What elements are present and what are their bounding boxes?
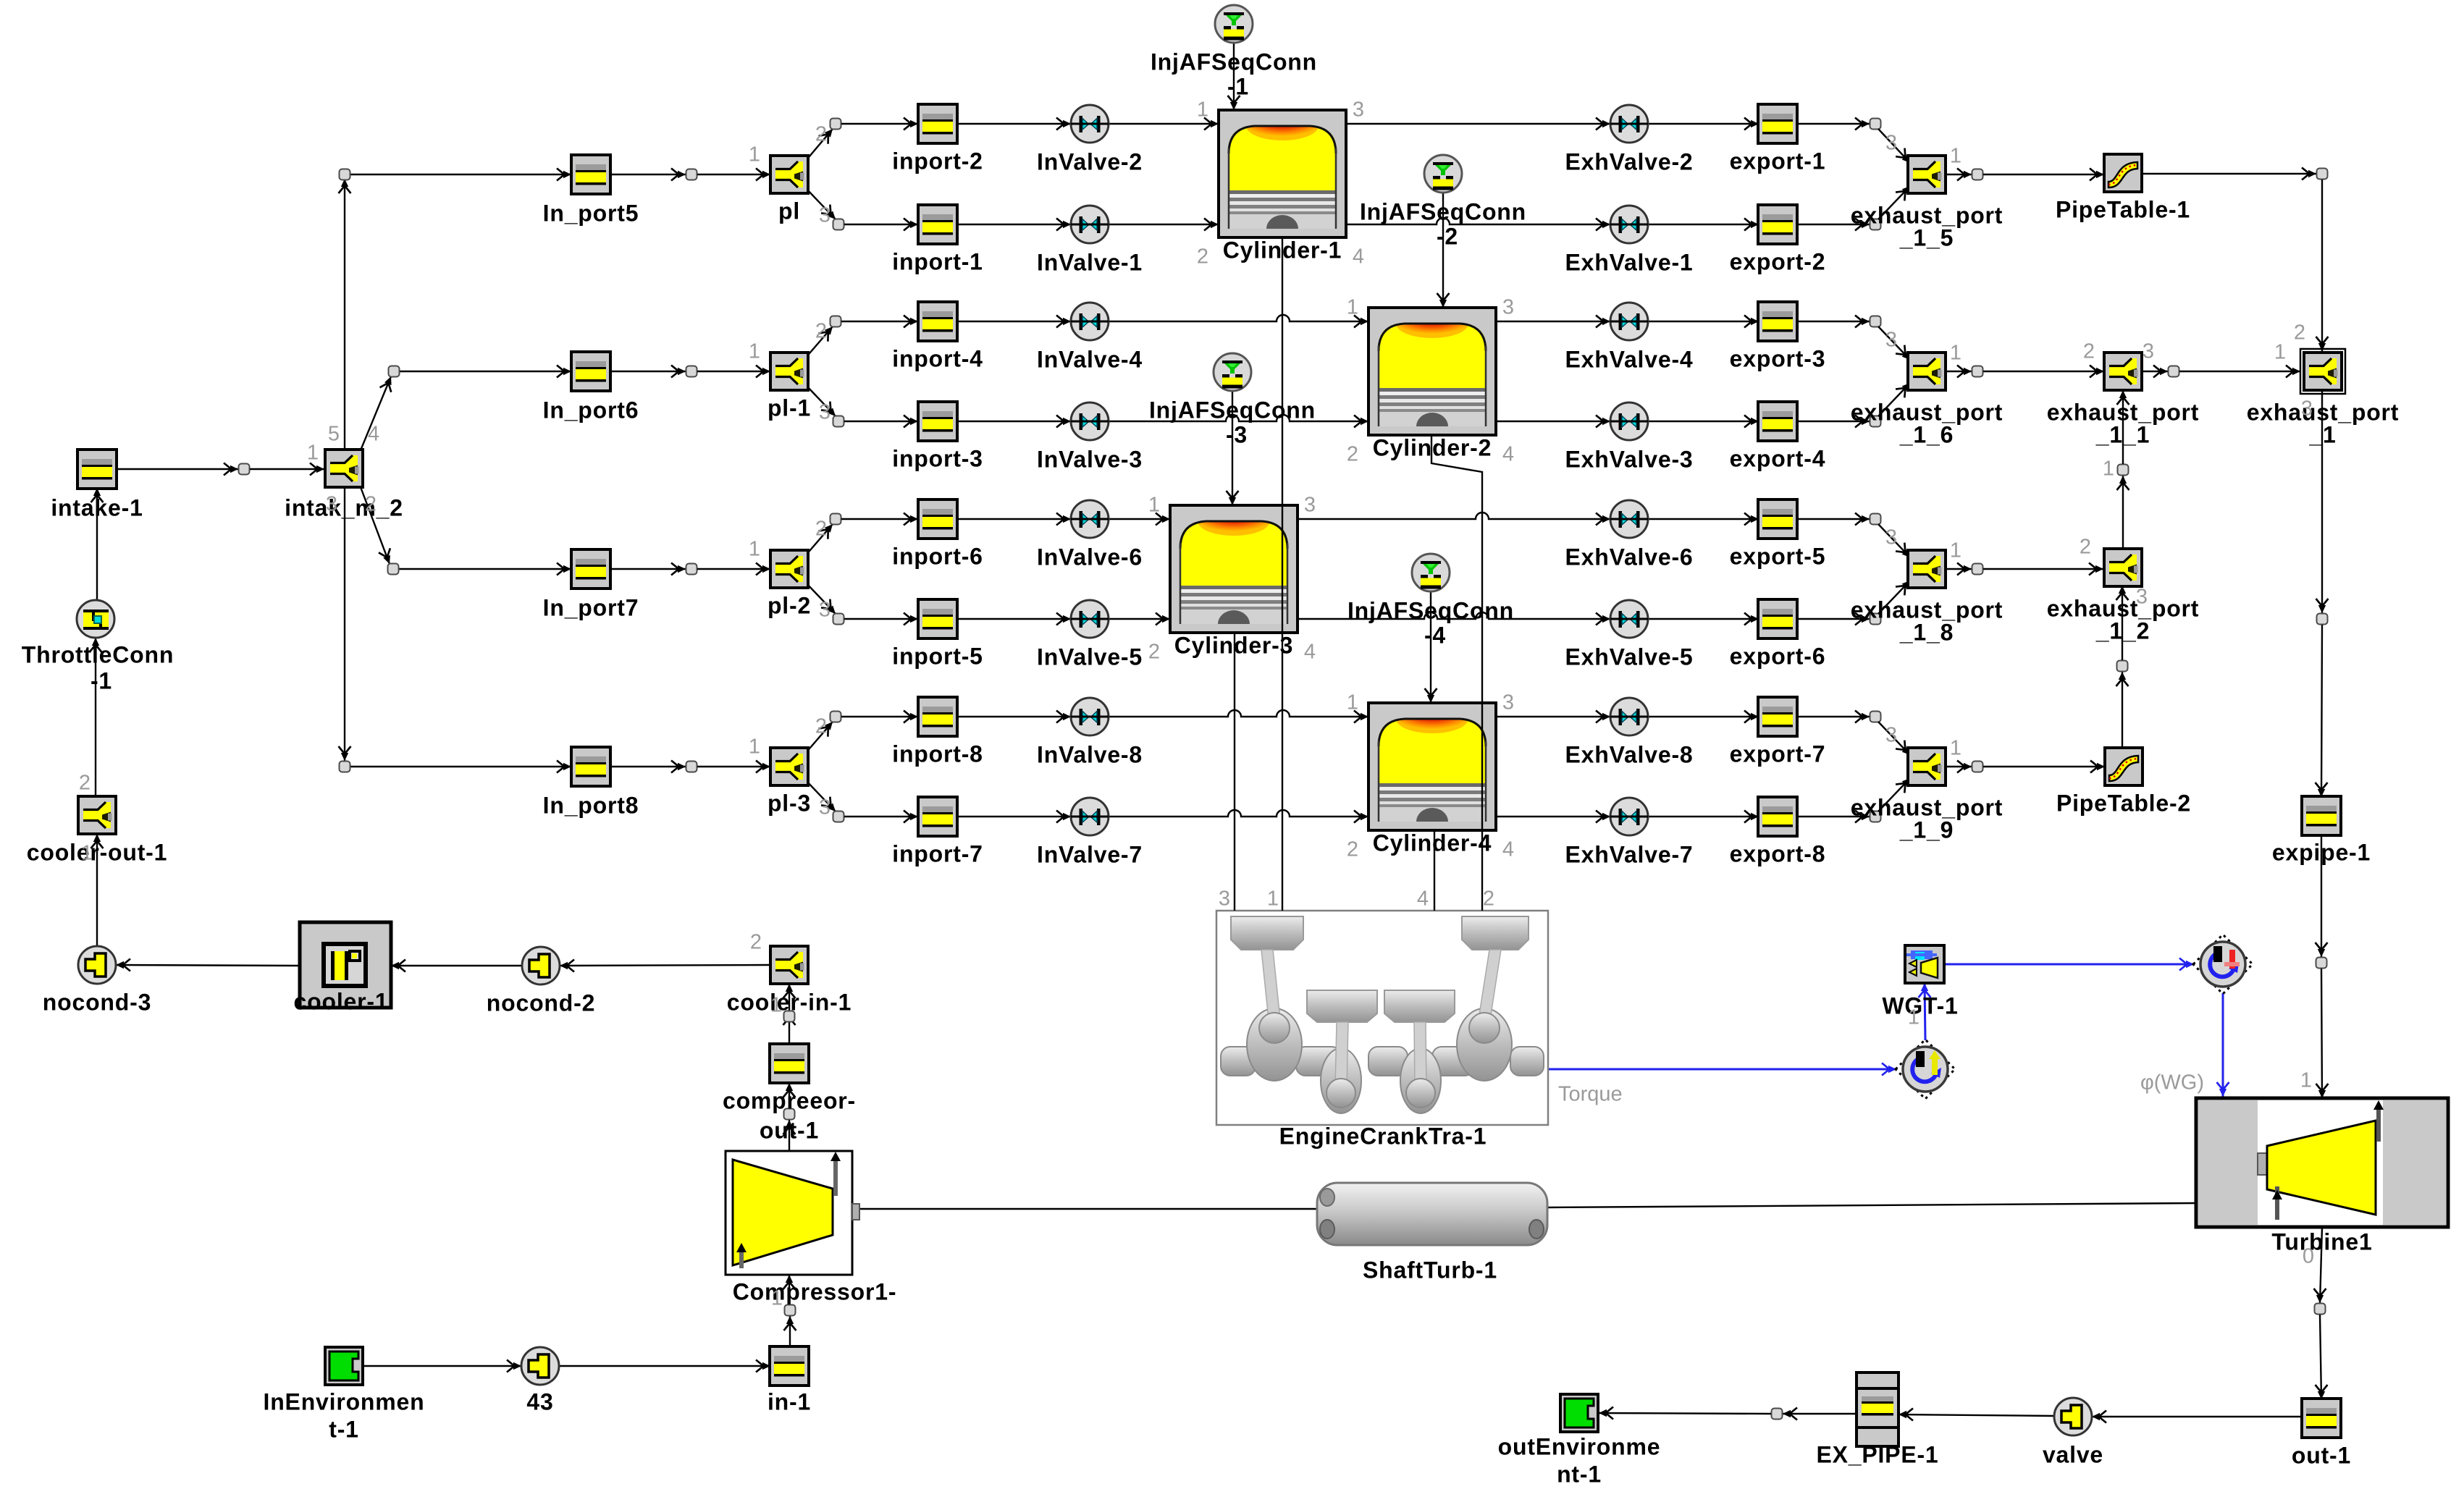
svg-text:InValve-3: InValve-3 — [1037, 446, 1143, 472]
svg-text:EngineCrankTra-1: EngineCrankTra-1 — [1279, 1123, 1487, 1149]
valve ExhValve-5 — [1610, 600, 1648, 638]
node ex-n — [1772, 1409, 1783, 1420]
svg-text:-1: -1 — [1227, 73, 1249, 99]
svg-text:_1_2: _1_2 — [2095, 617, 2150, 644]
svg-text:intake-1: intake-1 — [51, 494, 143, 520]
wire cylinder to ExhValve-3 — [1496, 421, 1610, 422]
svg-text:InValve-1: InValve-1 — [1037, 249, 1143, 275]
svg-text:InValve-8: InValve-8 — [1037, 741, 1143, 767]
svg-text:2: 2 — [2080, 536, 2091, 559]
svg-text:inport-7: inport-7 — [892, 840, 983, 866]
svg-text:3: 3 — [1885, 132, 1897, 155]
junction cooler-in-1 — [770, 946, 808, 984]
svg-text:3: 3 — [2301, 397, 2313, 421]
environment InEnvironment-1 — [325, 1347, 363, 1385]
svg-text:EX_PIPE-1: EX_PIPE-1 — [1816, 1441, 1938, 1467]
svg-text:_1: _1 — [2308, 421, 2336, 447]
wire InValve-5 to cylinder — [1109, 618, 1170, 620]
node _1_6-out — [1972, 366, 1983, 377]
wire EX_PIPE-1 to node — [1783, 1413, 1857, 1414]
svg-text:2: 2 — [1347, 443, 1358, 466]
svg-text:export-8: export-8 — [1730, 840, 1826, 866]
node export-1-n — [1870, 119, 1881, 130]
svg-text:1: 1 — [749, 143, 760, 166]
svg-text:InjAFSeqConn: InjAFSeqConn — [1149, 397, 1316, 423]
wire inport-3 to InValve-3 — [957, 421, 1071, 422]
node pl-1-3 — [833, 416, 844, 427]
pipe inport-5 — [918, 599, 957, 638]
wire InjAFSeqConn-3 — [1232, 391, 1233, 505]
svg-text:ExhValve-1: ExhValve-1 — [1565, 249, 1694, 275]
svg-text:In_port7: In_port7 — [543, 594, 639, 620]
wire valve to EX_PIPE-1 — [1899, 1414, 2054, 1416]
svg-text:3: 3 — [819, 204, 831, 227]
svg-text:InValve-4: InValve-4 — [1037, 346, 1143, 372]
svg-text:-4: -4 — [1424, 622, 1446, 648]
wire node to _1_5 — [1878, 129, 1910, 163]
wire InValve-6 to cylinder — [1109, 518, 1170, 520]
node export-2-n — [1870, 219, 1881, 230]
element WGT-1 — [1905, 945, 1944, 983]
junction exhaust_port_1_9 — [1908, 748, 1946, 785]
svg-text:4: 4 — [1502, 443, 1514, 466]
node pl-3-2 — [831, 712, 841, 722]
wire node to _1_5 lower — [1878, 186, 1910, 219]
svg-text:Cylinder-3: Cylinder-3 — [1174, 632, 1293, 658]
svg-text:out-1: out-1 — [760, 1117, 819, 1143]
svg-text:PipeTable-1: PipeTable-1 — [2056, 196, 2190, 222]
svg-text:inport-4: inport-4 — [892, 345, 983, 371]
node tr — [2317, 169, 2328, 180]
valve InValve-1 — [1071, 206, 1109, 243]
valve InValve-3 — [1071, 402, 1109, 440]
svg-text:InjAFSeqConn: InjAFSeqConn — [1151, 49, 1317, 75]
svg-text:ShaftTurb-1: ShaftTurb-1 — [1363, 1257, 1497, 1283]
junction pl-1 — [770, 353, 808, 390]
node intake-n — [239, 464, 250, 475]
wire ExhValve-4 to export-3 — [1648, 321, 1759, 322]
node export-4-n — [1870, 416, 1881, 427]
svg-text:1: 1 — [770, 994, 782, 1017]
svg-text:cooler-out-1: cooler-out-1 — [27, 839, 168, 865]
element valve — [2054, 1398, 2092, 1435]
svg-text:InValve-2: InValve-2 — [1037, 148, 1143, 174]
junction exhaust_port_1_8 — [1908, 550, 1946, 588]
node _1_9-out — [1972, 762, 1983, 772]
valve InValve-2 — [1071, 105, 1109, 143]
wire InjAFSeqConn-4 — [1430, 591, 1431, 703]
node pl-3-3 — [833, 811, 844, 822]
svg-text:2: 2 — [365, 493, 377, 516]
pipe inport-2 — [918, 104, 957, 143]
svg-text:pl-3: pl-3 — [768, 790, 811, 816]
wire node to PipeTable-1 — [1983, 174, 2104, 175]
svg-text:export-3: export-3 — [1730, 345, 1826, 371]
svg-text:3: 3 — [326, 493, 337, 516]
wire In_port8 feed — [350, 766, 571, 767]
wire exhaust_port_1_2 up — [2122, 476, 2124, 549]
svg-text:43: 43 — [526, 1388, 553, 1414]
wire throttle to intake-1 — [96, 488, 98, 600]
svg-text:export-4: export-4 — [1730, 445, 1826, 471]
node t-n — [2315, 1304, 2326, 1315]
svg-text:3: 3 — [1304, 494, 1316, 517]
svg-text:0: 0 — [2303, 1245, 2314, 1268]
cooler cooler-1 — [300, 922, 391, 1008]
svg-text:nocond-3: nocond-3 — [43, 989, 151, 1015]
pipe export-6 — [1758, 599, 1797, 638]
wire node to pl-1 — [697, 371, 770, 372]
svg-text:3: 3 — [2143, 340, 2154, 363]
connector InjAFSeqConn-4 — [1412, 554, 1450, 591]
wire Torque — [1548, 1068, 1896, 1071]
svg-text:1: 1 — [81, 842, 93, 865]
wire InValve-1 to cylinder — [1109, 224, 1219, 225]
wire export-3 to node — [1796, 321, 1870, 322]
wire cooler-out to throttle — [95, 638, 96, 796]
wire ExhValve-2 to export-1 — [1648, 123, 1759, 125]
node ci-n — [784, 1011, 795, 1022]
wire node to _1_8 lower — [1878, 581, 1910, 614]
wire inport-2 to InValve-2 — [957, 123, 1071, 125]
pipe export-3 — [1758, 302, 1797, 341]
node feed2 — [389, 366, 400, 377]
wire node to _1_6 lower — [1878, 383, 1910, 416]
environment outEnvironment-1 — [1560, 1394, 1598, 1432]
element nocond-3 — [78, 946, 116, 984]
svg-text:inport-6: inport-6 — [892, 543, 983, 569]
node pt2-n — [2117, 661, 2128, 672]
svg-text:3: 3 — [819, 599, 831, 622]
svg-text:InjAFSeqConn: InjAFSeqConn — [1347, 597, 1514, 623]
wire InValve-8 to cylinder — [1109, 710, 1368, 717]
svg-text:inport-8: inport-8 — [892, 741, 983, 767]
wire PipeTable-2 up — [2122, 672, 2123, 748]
wire InValve-3 to cylinder — [1109, 415, 1368, 421]
pipetable PipeTable-1 — [2104, 154, 2142, 192]
junction pl — [770, 156, 808, 193]
wire node down to out-1 — [2320, 1315, 2321, 1399]
junction pl-3 — [770, 748, 808, 785]
svg-text:InEnvironmen: InEnvironmen — [264, 1388, 425, 1414]
pipe expipe-1 — [2302, 796, 2341, 835]
wire node up to exhaust_port_1_1 — [2122, 390, 2124, 464]
svg-text:3: 3 — [1502, 296, 1514, 319]
pipe export-5 — [1758, 499, 1797, 539]
wire node to _1_6 — [1878, 326, 1910, 360]
svg-text:1: 1 — [1950, 342, 1961, 365]
valve InValve-7 — [1071, 798, 1109, 835]
wire intake-1 to node — [116, 468, 238, 470]
cylinder Cylinder-1 — [1219, 110, 1346, 237]
svg-text:-2: -2 — [1437, 223, 1458, 249]
wire _1_9 out — [1946, 766, 1972, 767]
svg-text:3: 3 — [1885, 526, 1897, 549]
pipe export-1 — [1758, 104, 1797, 143]
node pl-3 — [833, 219, 844, 230]
node in1-n — [785, 1305, 796, 1316]
connector InjAFSeqConn-1 — [1215, 5, 1253, 43]
actuator actuator-1 — [2193, 935, 2253, 994]
svg-text:Cylinder-2: Cylinder-2 — [1373, 434, 1492, 460]
wire node to inport-7 — [844, 816, 918, 817]
svg-text:2: 2 — [815, 320, 827, 343]
svg-text:1: 1 — [2103, 457, 2114, 481]
wire cooler-in to nocond-2 — [560, 965, 770, 966]
node pl-2-3 — [833, 614, 844, 625]
wire export-6 to node — [1796, 618, 1870, 620]
svg-text:2: 2 — [1347, 838, 1358, 861]
svg-text:4: 4 — [1353, 245, 1364, 269]
wire In_port5 feed — [350, 174, 571, 175]
node export-7-n — [1870, 712, 1881, 722]
svg-text:PipeTable-2: PipeTable-2 — [2056, 790, 2191, 816]
svg-text:Cylinder-1: Cylinder-1 — [1223, 237, 1342, 263]
node In_port8-n — [686, 762, 697, 772]
svg-text:3: 3 — [819, 796, 831, 819]
node feed3 — [388, 564, 399, 575]
node export-3-n — [1870, 316, 1881, 327]
svg-text:out-1: out-1 — [2292, 1442, 2351, 1468]
wire intak_m_2 down — [344, 487, 345, 761]
svg-text:1: 1 — [749, 735, 760, 759]
wire cooler-1 to nocond-3 — [116, 965, 300, 966]
svg-text:-1: -1 — [91, 667, 112, 693]
svg-text:In_port8: In_port8 — [543, 792, 639, 818]
svg-text:In_port6: In_port6 — [543, 397, 639, 423]
svg-text:ExhValve-3: ExhValve-3 — [1565, 446, 1694, 472]
wire ExhValve-8 to export-7 — [1648, 716, 1759, 717]
svg-text:inport-5: inport-5 — [892, 643, 983, 669]
svg-text:1: 1 — [1950, 539, 1961, 562]
node export-8-n — [1870, 811, 1881, 822]
wire InValve-2 to cylinder — [1109, 123, 1219, 125]
pipe inport-6 — [918, 499, 957, 539]
wire ExhValve-7 to export-8 — [1648, 816, 1759, 817]
wire node up to exhaust_port_1_2 — [2122, 586, 2123, 660]
svg-text:φ(WG): φ(WG) — [2140, 1071, 2204, 1095]
node export-6-n — [1870, 614, 1881, 625]
valve ExhValve-3 — [1610, 402, 1648, 440]
svg-text:export-7: export-7 — [1730, 741, 1826, 767]
pipe In_port6 — [571, 352, 610, 391]
svg-text:ExhValve-2: ExhValve-2 — [1565, 148, 1694, 174]
wire WGT-1 to actuator — [1944, 963, 2194, 966]
shaft ShaftTurb-1 — [1317, 1183, 1547, 1245]
pipetable PipeTable-2 — [2105, 748, 2143, 785]
wire cylinder to ExhValve-2 — [1346, 123, 1610, 125]
node In_port5-n — [686, 169, 697, 180]
wire export-7 to node — [1796, 716, 1870, 717]
svg-text:ThrottleConn: ThrottleConn — [22, 641, 174, 667]
svg-text:1: 1 — [1197, 98, 1208, 122]
svg-text:compreeor-: compreeor- — [723, 1087, 856, 1113]
pipe EX_PIPE-1 — [1857, 1372, 1899, 1446]
svg-text:1: 1 — [307, 442, 319, 465]
svg-text:_1_6: _1_6 — [1899, 421, 1954, 447]
node x11-n — [2169, 366, 2179, 377]
svg-text:1: 1 — [2274, 341, 2286, 364]
svg-text:2: 2 — [1483, 887, 1494, 911]
wire ExhValve-1 to export-2 — [1648, 224, 1759, 225]
svg-text:pl-2: pl-2 — [768, 592, 811, 618]
wire node to exhaust_port_1 — [2179, 371, 2300, 372]
wire Cylinder-2 to crank — [1431, 434, 1482, 911]
wire inport-6 to InValve-6 — [957, 518, 1071, 520]
svg-text:InValve-7: InValve-7 — [1037, 841, 1143, 867]
junction pl-2 — [770, 550, 808, 588]
junction exhaust_port_1 — [2300, 349, 2345, 394]
wire node to inport-8 — [841, 716, 918, 717]
wire cylinder to ExhValve-1 — [1346, 218, 1610, 224]
node In_port6-n — [686, 366, 697, 377]
svg-text:3: 3 — [819, 401, 831, 424]
svg-text:inport-1: inport-1 — [892, 248, 983, 274]
pipe In_port8 — [571, 747, 610, 786]
wire InjAFSeqConn-2 — [1442, 193, 1444, 308]
svg-text:4: 4 — [1417, 887, 1429, 911]
svg-text:4: 4 — [368, 423, 379, 446]
svg-text:1: 1 — [1950, 737, 1961, 760]
wire pl-2 port3 — [805, 582, 836, 614]
wire export-1 to node — [1796, 123, 1870, 125]
element 43 — [521, 1347, 559, 1385]
wire node to cooler-in — [789, 984, 790, 1016]
wire In_port6 to node — [610, 371, 686, 372]
svg-text:ExhValve-8: ExhValve-8 — [1565, 741, 1694, 767]
node pl-2 — [831, 119, 841, 130]
wire intak_m_2 up — [344, 173, 345, 450]
pipe compreeor-out-1 — [770, 1044, 809, 1083]
wire node to inport-4 — [841, 321, 918, 322]
pipe out-1 — [2302, 1399, 2341, 1438]
pipe inport-1 — [918, 205, 957, 244]
svg-text:export-2: export-2 — [1730, 248, 1826, 274]
node xp1-n — [2317, 614, 2328, 625]
junction exhaust_port_1_6 — [1908, 353, 1946, 390]
pipe export-2 — [1758, 205, 1797, 244]
wire node to compressor — [789, 1275, 790, 1310]
svg-text:cooler-in-1: cooler-in-1 — [727, 989, 852, 1015]
wire Turbine1 down — [2320, 1227, 2322, 1303]
valve InValve-4 — [1071, 303, 1109, 340]
junction exhaust_port_1_5 — [1908, 156, 1946, 193]
svg-text:1: 1 — [749, 340, 760, 363]
wire exhaust_port_1_1 to node — [2142, 371, 2168, 372]
wire _1_6 out — [1946, 371, 1972, 372]
junction exhaust_port_1_2 — [2104, 549, 2142, 586]
svg-text:4: 4 — [1502, 838, 1514, 861]
wire node to inport-1 — [844, 224, 918, 225]
svg-text:_1_8: _1_8 — [1899, 619, 1954, 645]
wire pl-1 port2 — [805, 326, 833, 358]
wire export-8 to node — [1796, 816, 1870, 817]
element nocond-2 — [522, 947, 560, 984]
wire corner down to exhaust_port_1 — [2321, 180, 2323, 351]
wire compressor-out to node — [789, 1011, 790, 1044]
connector ThrottleConn-1 — [77, 600, 114, 638]
wire 43 to in-1 — [559, 1365, 770, 1367]
svg-text:1: 1 — [1908, 1006, 1920, 1029]
svg-text:WGT-1: WGT-1 — [1882, 992, 1958, 1019]
svg-text:2: 2 — [815, 123, 827, 146]
svg-text:1: 1 — [1148, 494, 1160, 517]
wire expipe-1 down — [2321, 834, 2322, 957]
wire exhaust_port_1 down — [2321, 392, 2323, 613]
wire InEnvironment to 43 — [363, 1365, 521, 1367]
svg-text:_1_5: _1_5 — [1899, 224, 1954, 250]
wire cylinder to ExhValve-8 — [1496, 716, 1610, 717]
node feed1 — [340, 169, 350, 180]
wire In_port8 to node — [610, 766, 686, 767]
wire node to exhaust_port_1_1 — [1983, 371, 2104, 372]
wire node to exhaust_port_1_2 — [1983, 568, 2103, 570]
wire node to inport-2 — [841, 123, 918, 125]
svg-text:InValve-5: InValve-5 — [1037, 644, 1143, 670]
wire cylinder to ExhValve-5 — [1298, 612, 1610, 619]
cylinder Cylinder-3 — [1170, 505, 1298, 633]
wire node to outEnvironment — [1599, 1413, 1771, 1414]
svg-text:-3: -3 — [1226, 421, 1248, 447]
svg-text:1: 1 — [2300, 1069, 2312, 1092]
valve InValve-8 — [1071, 698, 1109, 735]
wire ShaftTurb-1 to Turbine1 — [1547, 1203, 2196, 1207]
svg-text:3: 3 — [2136, 586, 2148, 609]
wire node to _1_8 — [1878, 524, 1910, 557]
svg-text:2: 2 — [1197, 245, 1208, 269]
wire node to pl-2 — [697, 568, 770, 570]
node In_port7-n — [686, 564, 697, 575]
svg-text:1: 1 — [749, 538, 760, 561]
wire In_port5 to node — [610, 174, 686, 175]
wire ExhValve-5 to export-6 — [1648, 618, 1759, 620]
wire InjAFSeqConn-1 — [1233, 43, 1235, 110]
valve ExhValve-6 — [1610, 500, 1648, 538]
wire node to pl-3 — [697, 766, 770, 767]
wire ExhValve-3 to export-4 — [1648, 421, 1759, 422]
svg-text:ExhValve-7: ExhValve-7 — [1565, 841, 1694, 867]
pipe in-1 — [770, 1346, 809, 1386]
svg-text:export-5: export-5 — [1730, 543, 1826, 569]
wire pl port3 — [805, 187, 836, 219]
pipe inport-7 — [918, 797, 957, 836]
wire nocond-2 to cooler-1 — [391, 965, 522, 966]
wire inport-5 to InValve-5 — [957, 618, 1071, 620]
wire cylinder to ExhValve-7 — [1496, 816, 1610, 817]
svg-text:2: 2 — [750, 931, 762, 954]
wire compressor to node — [789, 1120, 790, 1151]
svg-text:1: 1 — [771, 1287, 783, 1310]
svg-text:1: 1 — [1347, 691, 1358, 714]
turbine Turbine1 — [2196, 1098, 2448, 1227]
valve ExhValve-2 — [1610, 105, 1648, 143]
wire export-4 to node — [1796, 421, 1870, 422]
node export-5-n — [1870, 514, 1881, 525]
svg-text:Turbine1: Turbine1 — [2271, 1228, 2372, 1254]
pipe inport-3 — [918, 402, 957, 441]
wire diamond to WGT-1 — [1925, 983, 1925, 1040]
wire InValve-4 to cylinder — [1109, 315, 1368, 321]
wire Cylinder-3 to crank — [1234, 631, 1235, 911]
valve ExhValve-7 — [1610, 798, 1648, 835]
valve ExhValve-8 — [1610, 698, 1648, 735]
svg-text:1: 1 — [1950, 145, 1961, 168]
wire actuator to Turbine1 — [2222, 993, 2224, 1097]
wire InValve-7 to cylinder — [1109, 810, 1368, 817]
svg-text:2: 2 — [1148, 641, 1160, 664]
svg-text:intak_m_2: intak_m_2 — [285, 494, 403, 520]
wire _1_5 out — [1946, 174, 1972, 175]
